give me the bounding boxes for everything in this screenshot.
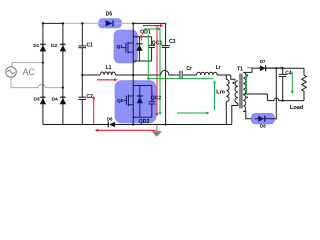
svg-text:Load: Load bbox=[290, 105, 304, 111]
svg-text:D4: D4 bbox=[52, 96, 58, 102]
svg-text:D6: D6 bbox=[107, 117, 113, 122]
green arrow load current down bbox=[291, 72, 294, 94]
capacitor C4 bbox=[279, 68, 287, 100]
svg-text:D7: D7 bbox=[260, 59, 266, 64]
wire bridge right column (D2/D4) bbox=[62, 23, 64, 124]
capacitor QC2 bbox=[148, 86, 155, 118]
AC source bbox=[6, 67, 17, 78]
mosfet Q2 bbox=[124, 95, 133, 107]
diode D4 bbox=[60, 97, 66, 104]
wire bottom bus left of D6 bbox=[43, 124, 108, 126]
resistor Load bbox=[302, 68, 307, 100]
diode QD1 (body diode of Q1) bbox=[136, 37, 142, 61]
svg-text:D3: D3 bbox=[34, 96, 40, 102]
highlight box Q2 bbox=[115, 81, 156, 124]
wire L1 row bbox=[82, 74, 100, 76]
junction dot bottom bus C3 bbox=[165, 123, 167, 125]
svg-text:Lm: Lm bbox=[216, 89, 225, 95]
transformer T1 polarity dot primary bbox=[232, 82, 234, 84]
red arrow under L1 bbox=[97, 78, 118, 81]
highlight box D8 bbox=[251, 113, 274, 124]
svg-text:D1: D1 bbox=[33, 43, 39, 49]
wire AC bottom lead with hop over D1 column (gray) bbox=[11, 78, 63, 88]
svg-text:T1: T1 bbox=[237, 66, 243, 72]
wire Lr to transformer node bbox=[217, 74, 231, 76]
junction dot AC bottom bbox=[62, 87, 64, 89]
green loop right descent bbox=[159, 29, 162, 115]
red loop top arrow bbox=[143, 24, 164, 27]
svg-text:C3: C3 bbox=[169, 39, 176, 45]
svg-text:L1: L1 bbox=[106, 65, 112, 71]
green Lm arrow bbox=[213, 80, 216, 110]
green return arrow under resonant row bbox=[146, 77, 213, 80]
diode D3 bbox=[40, 97, 46, 104]
svg-text:D2: D2 bbox=[51, 43, 57, 49]
wire secondary top lead to D7 rail bbox=[243, 68, 260, 72]
wire AC top lead (gray) bbox=[12, 63, 43, 67]
junction dot top bus D1 bbox=[42, 22, 44, 24]
diode QD2 (body diode of Q2) bbox=[137, 86, 143, 118]
capacitor Cr (series) bbox=[179, 71, 183, 80]
svg-text:AC: AC bbox=[23, 67, 36, 77]
svg-text:Q2: Q2 bbox=[117, 98, 124, 104]
wire C1/C2 column bbox=[81, 23, 83, 46]
junction dot top bus C1 bbox=[81, 22, 83, 24]
capacitor C1 bbox=[78, 46, 86, 48]
diode D2 bbox=[60, 44, 66, 51]
capacitor C3 bbox=[162, 46, 170, 48]
wire bottom bus right of D6 bbox=[115, 124, 232, 126]
transformer T1 core bbox=[240, 74, 242, 109]
transformer T1 ideal primary winding bbox=[231, 75, 238, 125]
green arrow output rail right bbox=[247, 66, 284, 69]
capacitor QC1 bbox=[148, 37, 155, 61]
wire QD2/QC2 top bar bbox=[133, 85, 152, 87]
red loop right descent bbox=[156, 26, 159, 117]
green loop top arrow bbox=[144, 27, 162, 30]
red arrow beside C2 bbox=[92, 96, 95, 125]
highlight box D5 bbox=[99, 19, 122, 28]
green arrowhead into QC1 bbox=[147, 34, 150, 78]
junction dot return rail C4 bbox=[282, 100, 284, 102]
wire secondary bottom lead to D8 bbox=[243, 111, 251, 118]
transformer T1 polarity dot secondary top bbox=[246, 74, 248, 76]
svg-text:C2: C2 bbox=[87, 94, 94, 100]
svg-text:QD2: QD2 bbox=[139, 119, 150, 125]
junction dot AC top bbox=[42, 62, 44, 64]
inductor Lr bbox=[197, 72, 218, 75]
wire Cr to Lr bbox=[183, 74, 197, 76]
wire C3 lower column bbox=[165, 47, 167, 124]
wire output return rail with hop over D8 riser bbox=[267, 98, 304, 100]
wire QD2/QC2 bottom bar bbox=[133, 116, 152, 118]
mosfet Q1 bbox=[123, 42, 133, 54]
highlight box Q1 bbox=[114, 30, 138, 63]
junction dot top bus Q1 bbox=[132, 22, 134, 24]
wire bridge left column (D1/D3) bbox=[42, 23, 44, 124]
svg-text:QD1: QD1 bbox=[140, 30, 151, 36]
svg-text:Cr: Cr bbox=[186, 66, 192, 72]
wire resonant row with hop over C3 column bbox=[133, 70, 179, 75]
transformer T1 primary Lm coil bbox=[226, 75, 229, 125]
svg-text:D5: D5 bbox=[106, 12, 113, 18]
junction dot half-bridge midpoint bbox=[132, 74, 134, 76]
wire QD1/QC1 top bar bbox=[133, 36, 151, 38]
diode D7 bbox=[260, 65, 266, 71]
transformer T1 secondary winding bbox=[243, 72, 246, 111]
green arrow secondary current up bbox=[245, 74, 248, 93]
svg-text:C1: C1 bbox=[87, 43, 94, 49]
wire half-bridge leg (Q1/Q2 column) bbox=[132, 23, 134, 124]
svg-text:D8: D8 bbox=[260, 124, 266, 129]
wire top bus black segment Q1 node to C3 corner bbox=[133, 23, 165, 45]
wire secondary center tap to output return bbox=[243, 94, 267, 101]
diode D1 bbox=[40, 44, 46, 51]
diode D8 (inside highlight) bbox=[255, 116, 271, 122]
green bottom arrow toward transformer bbox=[177, 112, 210, 115]
red loop bottom arrow bbox=[95, 129, 156, 132]
wire output top rail bbox=[266, 67, 304, 69]
wire D8 riser to output rail bbox=[271, 68, 276, 118]
junction dot output rail C4 bbox=[282, 67, 284, 69]
diode D5 (inside highlight) bbox=[106, 20, 113, 26]
capacitor C2 bbox=[78, 97, 86, 99]
svg-text:Q1: Q1 bbox=[116, 44, 123, 50]
junction dot bottom bus Q2 bbox=[132, 123, 134, 125]
svg-text:C4: C4 bbox=[285, 71, 292, 77]
wire QD1/QC1 bottom bar bbox=[133, 60, 151, 62]
junction dot top bus D2 bbox=[62, 22, 64, 24]
junction dot L1 left node bbox=[81, 74, 83, 76]
wire top bus black segment D1-D2 bbox=[43, 22, 63, 24]
ground symbol bbox=[152, 125, 162, 137]
wire top bus gray segment (D2 node to Q1 drain through D5) bbox=[63, 22, 133, 24]
transformer T1 polarity dot secondary mid bbox=[246, 97, 248, 99]
inductor L1 bbox=[100, 72, 115, 75]
red arrowhead into QD1 bbox=[140, 34, 143, 40]
diode D6 (series in bottom bus, pointing left) bbox=[108, 122, 115, 128]
junction dot output rail D8 riser bbox=[275, 67, 277, 69]
svg-text:Lr: Lr bbox=[216, 65, 221, 71]
